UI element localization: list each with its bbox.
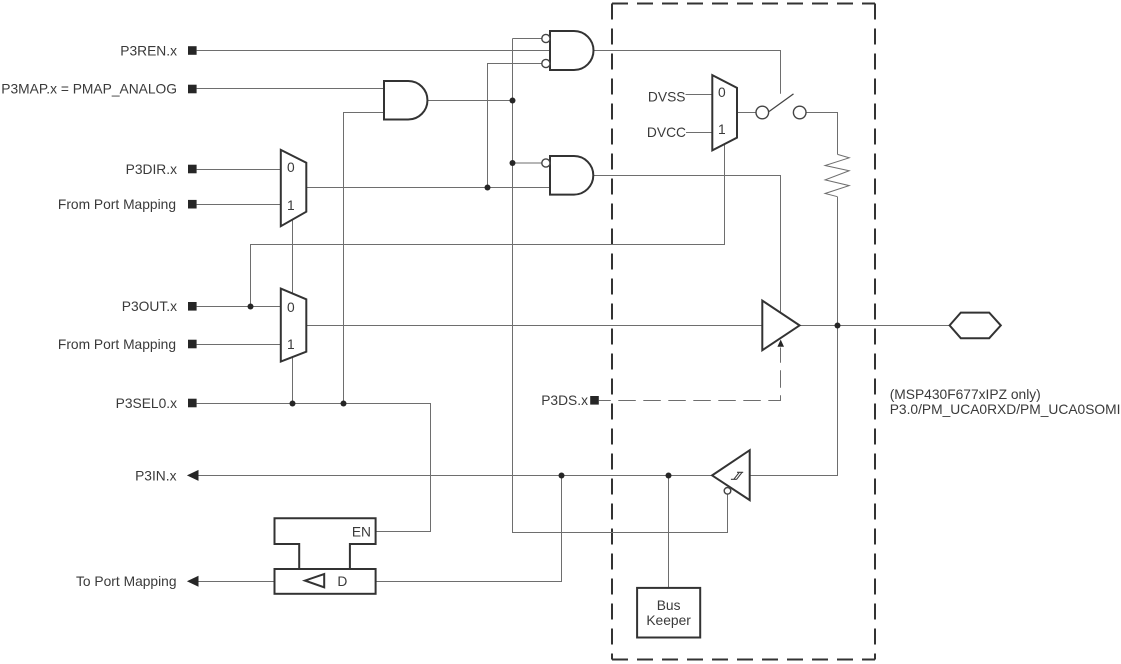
- svg-text:P3OUT.x: P3OUT.x: [122, 299, 177, 314]
- wire output buffer to pad: [800, 325, 950, 327]
- wire P3DS.x dashed to buffer drive-strength arrow: [599, 348, 781, 401]
- svg-text:P3DS.x: P3DS.x: [541, 393, 588, 408]
- dashed device boundary box: [612, 4, 875, 660]
- svg-text:1: 1: [287, 198, 295, 213]
- latch EN section: [275, 518, 376, 569]
- arrow P3IN.x output: [187, 470, 199, 481]
- svg-text:D: D: [337, 574, 347, 589]
- junction P3IN / latch D net: [559, 473, 565, 479]
- wire P3IN net from Schmitt output to P3IN.x arrow: [198, 475, 712, 477]
- wire NAND U2 output to output buffer enable: [594, 176, 781, 315]
- wire latch D output up to P3IN net: [376, 476, 562, 582]
- latch D section: [275, 569, 376, 594]
- svg-text:From Port Mapping: From Port Mapping: [58, 337, 176, 352]
- svg-text:P3IN.x: P3IN.x: [135, 468, 177, 483]
- svg-text:P3MAP.x = PMAP_ANALOG: P3MAP.x = PMAP_ANALOG: [1, 82, 177, 97]
- wire U2 inverted input stub from x512 net: [513, 162, 542, 164]
- terminal square P3MAP.x: [188, 85, 197, 94]
- wire P3SEL0.x junction up to AND U3 bottom input: [344, 113, 385, 404]
- svg-text:P3SEL0.x: P3SEL0.x: [116, 396, 177, 411]
- wire AND U3 output to node at x512: [427, 100, 512, 102]
- wire DVCC to mux M3 input 1: [686, 132, 712, 134]
- wire From Port Mapping to mux M2 input 1: [197, 344, 281, 346]
- output driver buffer: [762, 301, 799, 351]
- terminal square P3DIR.x: [188, 165, 197, 174]
- switch lever: [769, 94, 794, 112]
- wire mux M3 output to switch left contact: [737, 112, 756, 114]
- junction P3IN / Bus Keeper net: [666, 473, 672, 479]
- mux M2 P3OUT select: [281, 289, 307, 362]
- wire U1 bottom inverted input down to mux M1 output net: [488, 64, 542, 188]
- AND gate U3 (PMAP_ANALOG and P3SEL0): [384, 81, 427, 120]
- pad hexagon: [950, 313, 1001, 339]
- wire pad net: resistor bottom down to Schmitt input: [750, 197, 838, 476]
- svg-text:Keeper: Keeper: [646, 613, 691, 628]
- svg-text:0: 0: [287, 300, 295, 315]
- junction AND U3 out / x512 net: [510, 98, 516, 104]
- Schmitt hysteresis symbol: [731, 472, 743, 479]
- latch clock triangle: [305, 574, 324, 587]
- wire DVSS to mux M3 input 0: [686, 94, 713, 96]
- wire switch right contact to resistor top: [806, 113, 838, 155]
- arrow drive strength into buffer: [777, 340, 784, 347]
- junction U1 inverted input / mux M1 out net: [485, 185, 491, 191]
- wire select net P3SEL0 up through mux M2 to mux M1 select: [292, 220, 294, 404]
- svg-text:DVSS: DVSS: [648, 89, 686, 104]
- terminal square P3SEL0.x: [188, 399, 197, 408]
- svg-text:P3REN.x: P3REN.x: [120, 43, 177, 58]
- AND gate U2 (2-input, 1 inverted): [550, 156, 593, 195]
- wire U1 top inverted input stub: [513, 38, 542, 40]
- bubble U1 top input: [542, 34, 550, 42]
- svg-text:1: 1: [718, 122, 726, 137]
- terminal square P3OUT.x: [188, 302, 197, 311]
- junction pad / resistor net: [835, 323, 841, 329]
- svg-text:To Port Mapping: To Port Mapping: [76, 574, 176, 589]
- terminal square P3REN.x: [188, 46, 197, 55]
- svg-text:DVCC: DVCC: [647, 125, 686, 140]
- bubble U1 bottom input: [542, 59, 550, 67]
- wire NAND U1 output to switch control: [594, 51, 781, 94]
- wire P3REN.x to NAND U1 middle input: [197, 50, 550, 52]
- wire net x512: U1 inverted input down to Schmitt enable bubble: [513, 39, 728, 533]
- svg-text:Bus: Bus: [657, 598, 681, 613]
- svg-text:0: 0: [718, 85, 726, 100]
- wire From Port Mapping to mux M1 input 1: [197, 204, 281, 206]
- switch right contact: [793, 106, 806, 119]
- wire mux M1 output to NAND U2 bottom input: [306, 187, 550, 189]
- Bus Keeper box: [637, 588, 700, 638]
- wire mux M2 output to output buffer input: [306, 325, 762, 327]
- svg-text:(MSP430F677xIPZ only): (MSP430F677xIPZ only): [890, 387, 1041, 402]
- svg-text:EN: EN: [352, 525, 371, 540]
- terminal square From Port Mapping 2: [188, 340, 197, 349]
- arrow To Port Mapping output: [187, 576, 199, 587]
- wire P3MAP.x to AND U3 top input: [197, 88, 384, 90]
- svg-text:1: 1: [287, 337, 295, 352]
- mux M3 DVSS/DVCC select: [712, 75, 737, 150]
- terminal square P3DS.x: [590, 396, 599, 405]
- NAND-style AND gate U1 (3-input, 2 inverted): [550, 31, 594, 70]
- svg-text:P3DIR.x: P3DIR.x: [126, 162, 177, 177]
- bubble U2 top input: [542, 159, 550, 167]
- wire P3DIR.x to mux M1 input 0: [197, 169, 281, 171]
- mux M1 P3DIR select: [281, 150, 307, 226]
- terminal square From Port Mapping 1: [188, 200, 197, 209]
- switch left contact: [756, 106, 769, 119]
- junction P3SEL0 / mux select net: [290, 401, 296, 407]
- svg-text:From Port Mapping: From Port Mapping: [58, 197, 176, 212]
- wire P3OUT junction up and right to mux M3 select: [251, 144, 725, 307]
- svg-text:P3.0/PM_UCA0RXD/PM_UCA0SOMI: P3.0/PM_UCA0RXD/PM_UCA0SOMI: [890, 402, 1121, 417]
- wire P3SEL0.x to latch EN input: [197, 404, 431, 532]
- svg-text:0: 0: [287, 160, 295, 175]
- Schmitt trigger input buffer: [712, 450, 750, 500]
- wire latch left side to To Port Mapping arrow: [198, 581, 275, 583]
- junction P3OUT / mux M3 select net: [248, 304, 254, 310]
- wire P3IN junction down to Bus Keeper: [668, 476, 670, 588]
- wire P3OUT.x to mux M2 input 0: [197, 306, 281, 308]
- Schmitt enable bubble: [724, 488, 731, 495]
- resistor pullup/pulldown: [825, 154, 849, 196]
- junction P3SEL0 / AND U3 input net: [341, 401, 347, 407]
- junction U2 inverted input / x512 net: [510, 160, 516, 166]
